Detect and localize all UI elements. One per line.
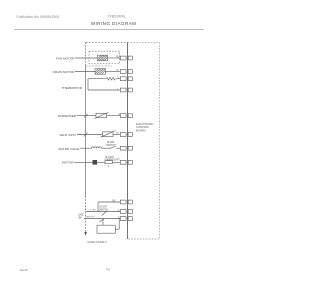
wire drain motor row [75,71,120,73]
svg-text:MOTOR: MOTOR [62,161,74,165]
neutral labels [86,217,121,219]
control board U1 outline [128,42,160,239]
hi-limit thermostat label [104,157,120,168]
svg-text:BK: BK [79,217,83,220]
svg-text:SOME MODELS: SOME MODELS [87,240,107,244]
some-models option box [97,225,115,233]
wire water valve row [80,147,120,149]
wire motor row [74,161,120,163]
some-models dashed enclosure [86,42,128,66]
door switch blade [102,211,107,215]
rail end arrowhead [84,232,87,236]
svg-text:6A/16: 6A/16 [20,268,28,272]
wire neutral row [84,218,120,220]
svg-text:BU: BU [116,132,119,134]
svg-text:BOARD: BOARD [136,128,146,132]
wire vent row [77,134,120,136]
dispenser actuator boxes [94,112,108,118]
wire L1 row with door switch [86,211,121,213]
pin P4 thermistor bottom [120,88,132,92]
control board label text [136,122,153,132]
svg-text:Publication No: 5995543904: Publication No: 5995543904 [17,15,60,19]
svg-text:THERMOSTAT: THERMOSTAT [104,158,120,161]
dispenser rail slash [84,114,88,118]
pin P3 thermistor top [120,77,132,81]
svg-text:WATER VALVE: WATER VALVE [58,147,79,151]
svg-text:DRAIN MOTOR: DRAIN MOTOR [53,70,76,74]
wire door switch top BK [98,202,120,212]
door switch label [99,206,109,212]
svg-text:FAN MOTOR: FAN MOTOR [56,56,75,60]
pin P9 door switch NO [120,200,132,204]
wire to some-models box [103,219,119,230]
header rule [14,29,204,31]
svg-text:DISPENSER: DISPENSER [58,114,77,118]
svg-text:VENT ASSY: VENT ASSY [59,133,76,137]
svg-text:FFBD2406L: FFBD2406L [108,14,126,18]
drain motor winding (hatched) [95,69,106,75]
float switch label [106,141,116,147]
svg-text:Br: Br [118,209,120,212]
pin P1 fan motor [120,56,132,60]
thermistor element zigzag [106,77,115,80]
svg-text:BU: BU [116,57,120,59]
pin P7 water valve [120,146,132,150]
svg-text:SWITCH: SWITCH [106,144,116,147]
vent wax motor (crossed box) [101,131,116,138]
wire dispenser row [77,115,121,117]
hi-limit thermostat box [105,161,113,164]
svg-text:THERMISTOR: THERMISTOR [62,86,83,90]
door switch blade 2 [100,219,105,223]
thermistor bracket wire [88,79,120,90]
left rail bus [85,42,87,232]
svg-text:7-6: 7-6 [106,267,111,271]
line bk label [78,214,84,220]
pin P5 dispenser [120,114,132,118]
wire fan motor row [75,57,120,59]
svg-text:WIRING DIAGRAM: WIRING DIAGRAM [91,21,137,26]
float switch blade [109,146,116,149]
fan motor inner dashed box [89,51,120,63]
motor M (filled) [93,160,98,165]
water valve coil [92,147,102,148]
svg-text:BK: BK [113,200,117,202]
wire labels L1 BK Br [88,209,120,212]
pin P6 vent [120,133,132,137]
svg-text:SWITCH: SWITCH [99,208,109,211]
pin P8 motor [120,160,132,164]
pin P2 drain motor [120,70,132,74]
pin P11 neutral [120,217,132,221]
vent rail slash [84,133,88,137]
pin P10 line [120,210,132,214]
fan motor winding (hatched) [98,55,108,61]
